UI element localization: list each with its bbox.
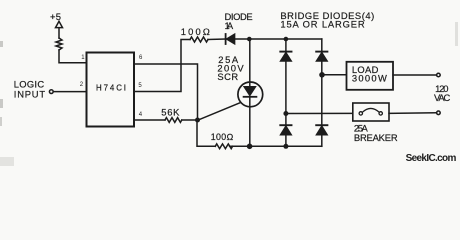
svg-text:56K: 56K [161, 106, 180, 117]
svg-text:100Ω: 100Ω [211, 132, 234, 142]
svg-text:INPUT: INPUT [14, 89, 46, 100]
svg-text:+5: +5 [50, 11, 61, 22]
svg-text:1A: 1A [225, 20, 234, 31]
svg-text:SeekIC.com: SeekIC.com [406, 153, 457, 164]
svg-text:H74CI: H74CI [96, 84, 126, 93]
svg-text:SCR: SCR [217, 71, 238, 82]
svg-text:15A OR LARGER: 15A OR LARGER [280, 19, 365, 30]
svg-text:BREAKER: BREAKER [354, 132, 398, 143]
svg-text:100Ω: 100Ω [181, 26, 210, 37]
svg-text:VAC: VAC [434, 92, 451, 103]
